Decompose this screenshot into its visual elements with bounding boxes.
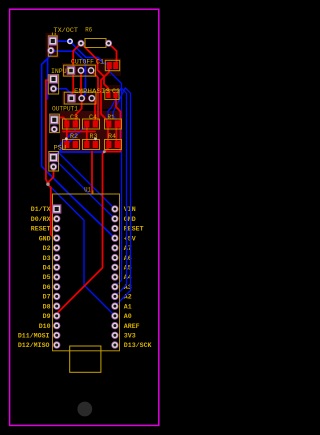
svg-text:RESET: RESET [31,226,51,233]
wire PSU pad1 to via [54,152,103,158]
wire right vertical 2 chevron to pad A2 [108,88,127,296]
capacitor C1 pads [107,62,112,69]
svg-text:C1: C1 [96,59,104,66]
wire SMD column links A-B row 2 [86,127,88,142]
resistor R6 pad 1 [78,40,84,46]
capacitor C3 outline [63,119,80,129]
wire EMPHASIS pad2 down to C3 right pad [76,98,82,121]
module U1 left pin pads [53,205,61,348]
svg-text:TX/OCT: TX/OCT [54,27,79,34]
wire feeder diagonal to VIN [59,153,115,210]
svg-text:D12/MISO: D12/MISO [18,342,50,349]
svg-text:D13/SCK: D13/SCK [124,342,152,349]
via near TX/OCT [68,39,72,43]
connector INPUT outline [48,75,58,94]
wire right vertical 3 chevron to pad A1 [113,88,130,306]
resistor R4 outline [105,140,122,150]
via near PSU [46,183,49,186]
svg-text:R3: R3 [90,133,98,140]
svg-text:D2: D2 [43,245,51,252]
potentiometer EMPHASIS pads [68,95,95,103]
wire TX/OCT pad1 to via [53,40,70,42]
svg-text:D11/MOSI: D11/MOSI [18,333,50,340]
TX/OCT pin ticks [51,33,53,36]
svg-text:VIN: VIN [124,206,136,213]
svg-text:GND: GND [124,216,136,223]
svg-text:D6: D6 [43,284,51,291]
wire R6 pad2 to C1 right pad [109,43,117,65]
svg-text:D10: D10 [39,323,51,330]
svg-text:GND: GND [39,235,51,242]
board outline (Edge.Cuts) [10,9,159,425]
resistor R3 outline [83,140,100,150]
wire via down to GND pad [49,167,57,238]
module U1 right pin pads [112,206,119,349]
via near R2 [65,137,68,140]
via near PSU horizontal [103,150,106,153]
wire left long vertical from TX area diag to +5V pad [42,56,115,239]
connector OUTPUT1 outline [50,114,60,133]
resistor R3 pads [84,141,89,148]
capacitor C2 outline [105,90,119,100]
svg-text:D8: D8 [43,303,51,310]
wire EMPHASIS pad3 down [92,98,95,120]
wire OUTPUT1 pad1 to SMD C3 [54,118,67,125]
capacitor C2 pads [106,92,110,98]
svg-text:+5V: +5V [124,235,136,242]
pin name labels right [124,206,152,349]
svg-text:EMPHASIS: EMPHASIS [74,88,110,95]
via near R3 [94,137,97,140]
wire via to C1 left pad [70,41,109,64]
wire short vertical left of INPUT box [47,59,49,99]
svg-text:D3: D3 [43,255,51,262]
usb connector outline [70,346,101,372]
mounting hole [77,402,92,417]
svg-text:D5: D5 [43,274,51,281]
svg-text:C3: C3 [70,114,78,121]
wire SMD column link right [115,127,117,142]
svg-text:PSU: PSU [54,145,67,152]
svg-text:R6: R6 [85,27,92,34]
capacitor C3 pads [64,121,69,128]
connector TX/OCT pads [48,37,57,54]
connector PSU pads [49,153,57,170]
capacitor C1 outline [105,60,119,70]
svg-text:A0: A0 [124,313,132,320]
wire TX/OCT pad2 right-down to EMPHASIS pad2 [53,51,86,98]
U1 tick [92,190,94,194]
wire CUTOFF pad2 down to EMPHASIS pad2 [80,71,83,99]
wire R4 pad1 long run into nano to D9 [57,148,108,314]
pin name labels left [18,206,51,349]
svg-text:C2: C2 [112,88,120,95]
connector OUTPUT1 pads [50,116,58,133]
svg-text:A1: A1 [124,303,132,310]
wire R6 pad1 to CUTOFF pad1 [71,43,81,98]
potentiometer CUTOFF pads [67,67,94,75]
resistor R6 outline [85,39,106,48]
svg-text:A2: A2 [124,294,132,301]
svg-text:C4: C4 [89,114,97,121]
svg-text:3V3: 3V3 [124,333,136,340]
resistor R2 pads [64,141,69,148]
svg-text:R1: R1 [108,114,115,121]
resistor R2 outline [63,140,80,150]
potentiometer EMPHASIS outline [64,92,96,104]
svg-text:D7: D7 [43,294,51,301]
copper pour zone patches (dark maroon) [46,33,122,109]
svg-text:CUTOFF: CUTOFF [71,59,94,66]
wire C1 left pad down [101,67,109,122]
svg-text:D0/RX: D0/RX [31,216,51,223]
wire SMD column links A-B row 3 [107,127,109,142]
capacitor C4 outline [83,119,100,129]
wire feeder to inner vertical then pad A0 [48,184,115,316]
resistor R1 outline [105,119,122,129]
wire INPUT pad1 left vertical down to via [46,80,54,184]
svg-text:R2: R2 [70,133,78,140]
svg-text:INPUT: INPUT [51,68,71,75]
svg-text:OUTPUT1: OUTPUT1 [52,106,78,113]
wire right vertical 1 to pad A3 [108,70,122,287]
module U1 nano outline [53,194,120,351]
wire INPUT pad2 to EMPHASIS pad1 [54,89,72,98]
svg-text:R4: R4 [108,133,116,140]
wire red horizontal between SMD rows [63,131,95,133]
wire short red mid vertical [91,152,93,193]
connector PSU outline [49,152,59,172]
resistor R6 pad 2 [106,40,112,46]
wire R6 pad1 branch down to C2 left pad [81,43,108,92]
svg-text:D4: D4 [43,265,51,272]
wire SMD column links A-B row 1 [66,127,68,142]
wire feeder diagonal to GND right [59,163,115,219]
potentiometer CUTOFF outline [64,65,96,76]
svg-text:D9: D9 [43,313,51,320]
svg-text:D1/TX: D1/TX [31,206,51,213]
wire SMD area diagonal 2 [59,130,76,147]
connector INPUT pads [49,75,57,92]
resistor R4 pads [106,141,111,148]
connector TX/OCT outline [48,36,57,56]
resistor R1 pads [106,121,111,128]
wire CUTOFF pad3 down to SMD R1 [91,71,98,121]
wire C2 right pad to R4 area [106,97,121,152]
svg-text:AREF: AREF [124,323,140,330]
capacitor C4 pads [84,121,89,128]
wire SMD area diagonal 1 [59,126,87,153]
svg-text:U1: U1 [84,186,91,193]
